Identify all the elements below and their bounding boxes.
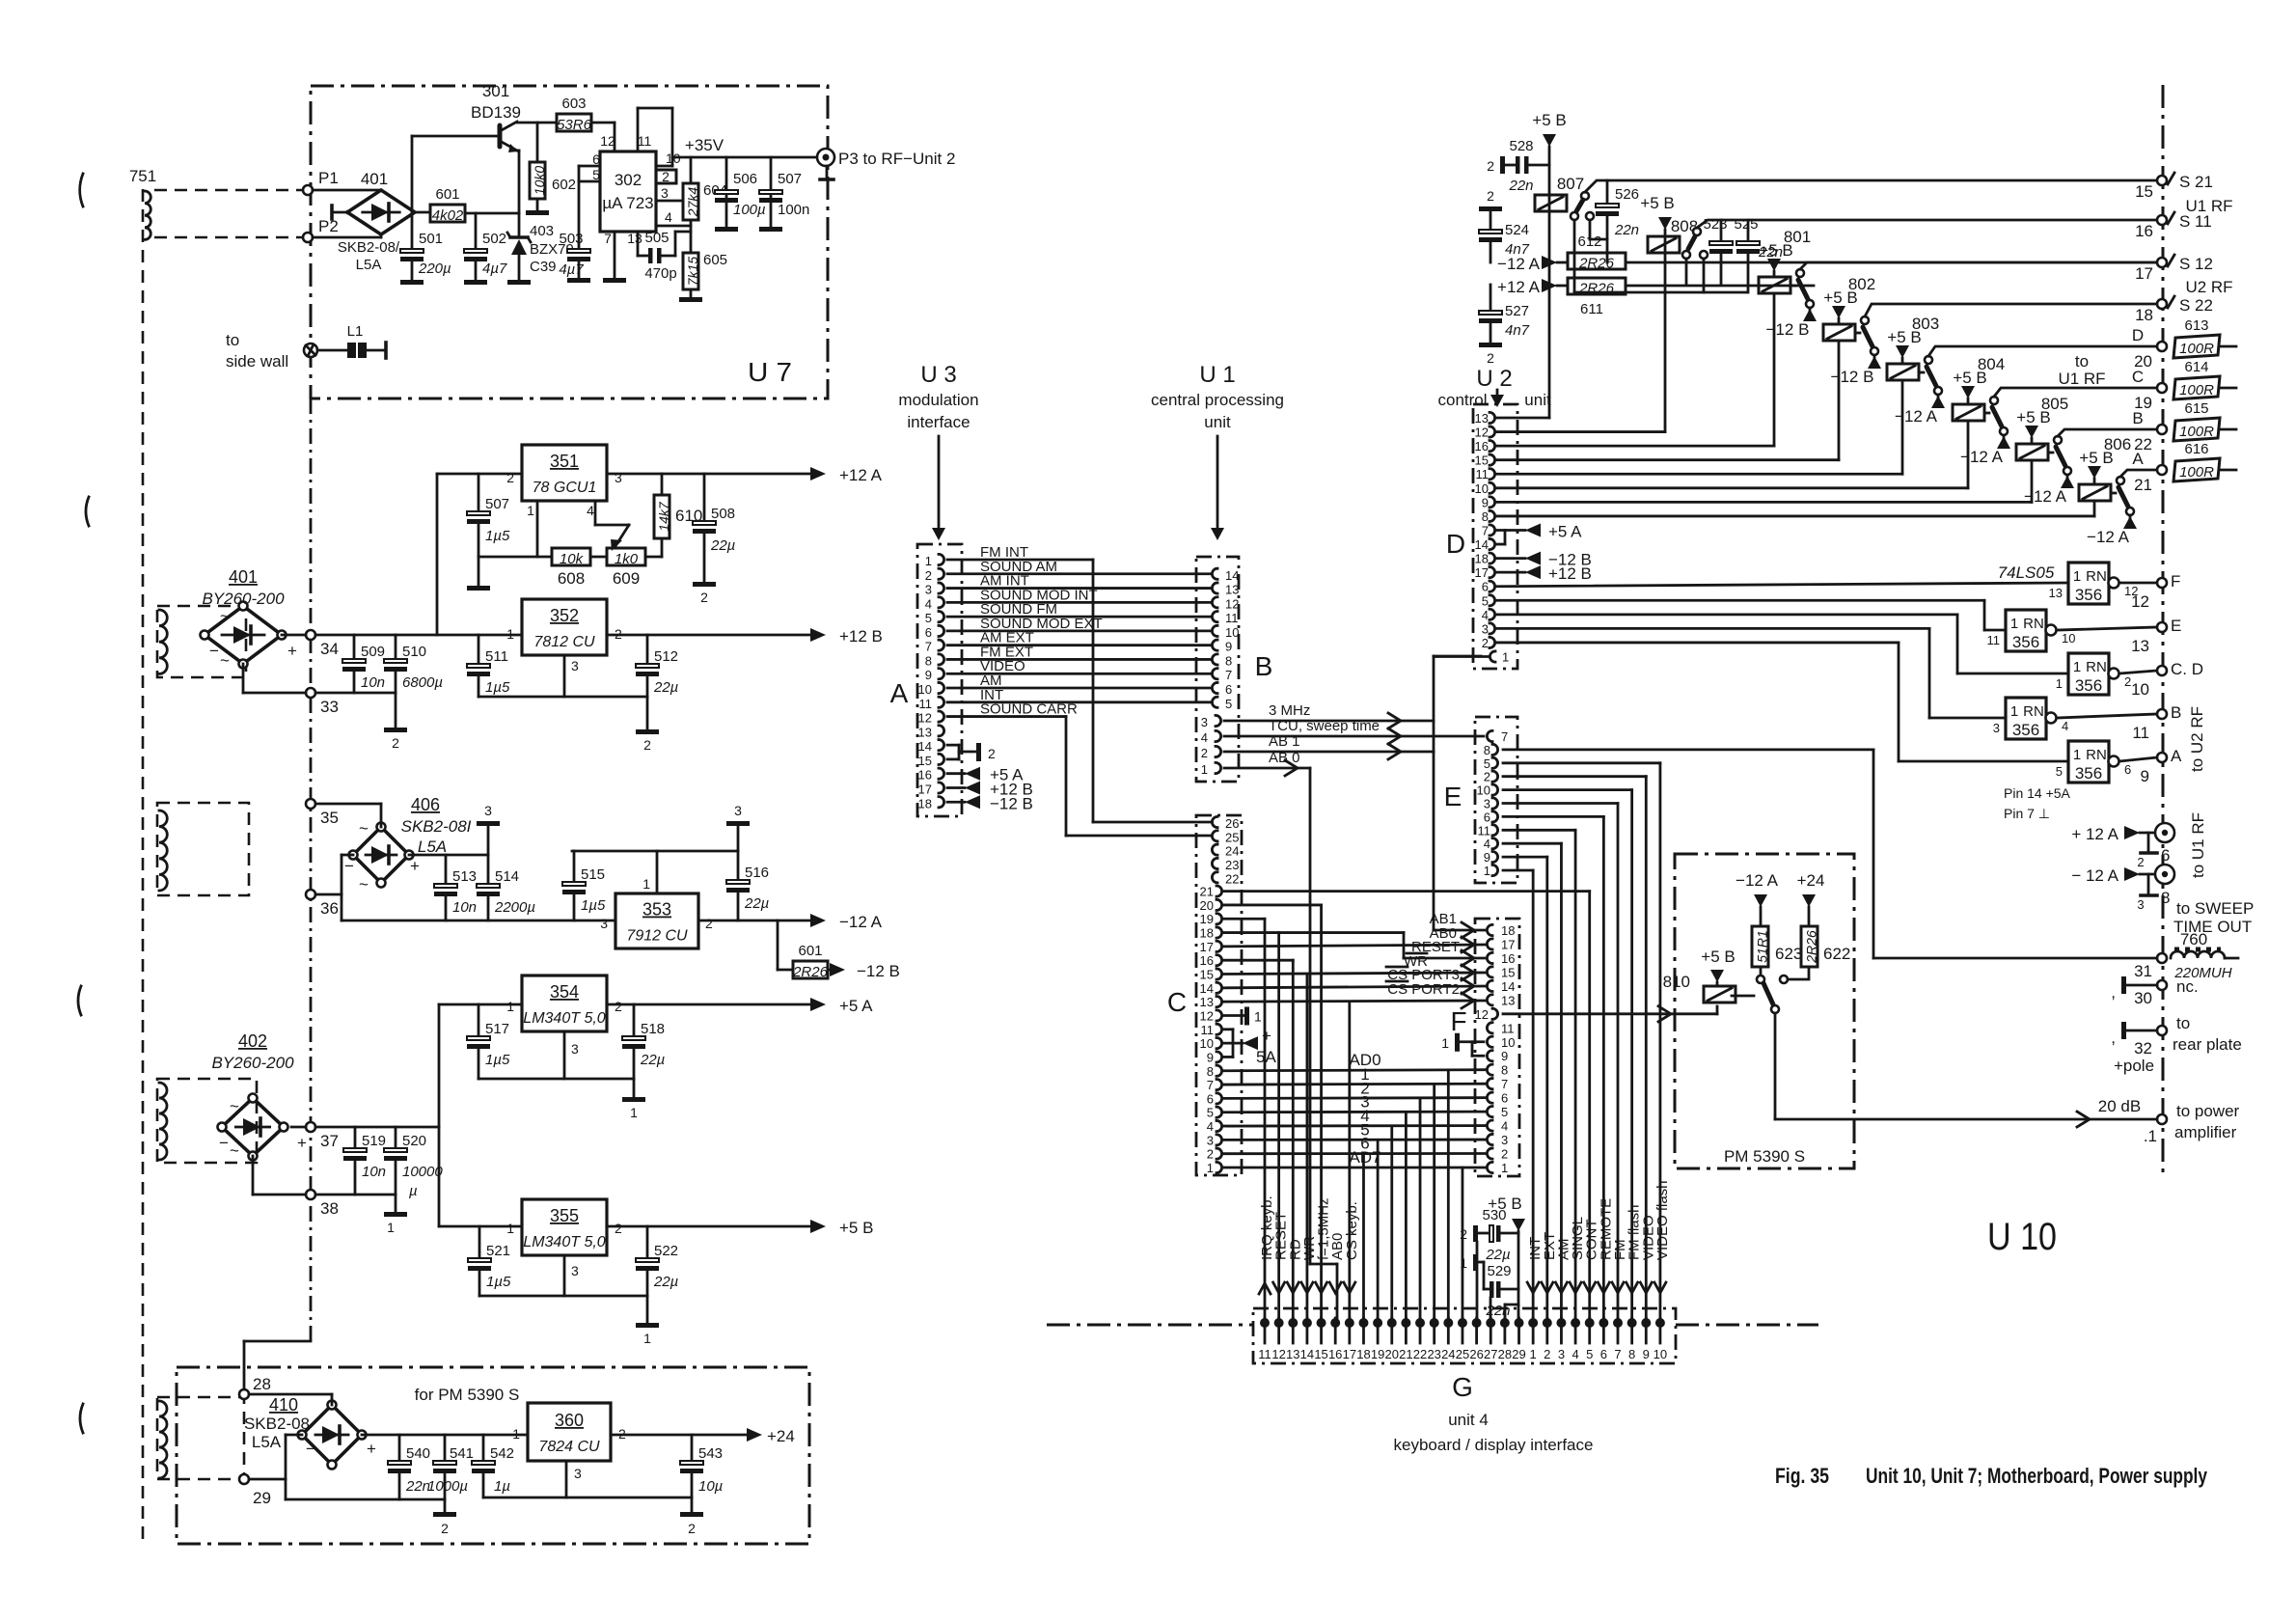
svg-text:100R: 100R (2179, 424, 2214, 440)
svg-text:541: 541 (450, 1445, 474, 1462)
wire 352 pin3 (563, 655, 566, 697)
svg-text:3: 3 (571, 1263, 579, 1278)
svg-text:6: 6 (1482, 580, 1489, 594)
arrow +24 in PM box (1797, 871, 1825, 926)
capacitor C506 100µ (715, 171, 766, 218)
wire base riser (412, 136, 500, 213)
wire 808 throw right down (1703, 259, 1706, 292)
capacitor C512 22µ (636, 635, 678, 697)
ground 520 (384, 1212, 407, 1235)
wire D4 to gate3 (1497, 615, 2068, 673)
svg-text:unit 4: unit 4 (1448, 1411, 1489, 1429)
label U1 RF (2185, 197, 2232, 215)
svg-text:807: 807 (1557, 175, 1584, 193)
wire C506 (725, 157, 728, 227)
label 410 (244, 1395, 310, 1451)
label 74LS05 (1998, 563, 2055, 582)
svg-text:1µ5: 1µ5 (485, 679, 510, 696)
svg-text:14: 14 (1475, 537, 1489, 552)
relay 802 (1823, 275, 1875, 341)
svg-text:301: 301 (482, 82, 509, 100)
caption Fig. 35 (1775, 1464, 1829, 1488)
svg-text:2: 2 (615, 999, 622, 1014)
label E (1444, 782, 1462, 811)
resistor R603 53R6 (557, 96, 592, 133)
bridge rectifier 402 BY260-200 (218, 1094, 288, 1161)
svg-text:21: 21 (2134, 476, 2152, 494)
svg-text:Fig. 35: Fig. 35 (1775, 1464, 1829, 1488)
svg-text:+5 B: +5 B (1701, 948, 1735, 966)
svg-text:interface: interface (907, 413, 970, 431)
svg-text:2R26: 2R26 (1804, 930, 1819, 964)
wire junction rail 303 (1574, 291, 1747, 294)
wire collector line to R602 (536, 123, 539, 162)
wire C14 to F14 CS PORT3 (1224, 978, 1485, 994)
svg-text:3: 3 (1482, 621, 1489, 636)
svg-text:15: 15 (1200, 968, 1214, 982)
svg-text:17: 17 (1343, 1347, 1356, 1361)
svg-text:7: 7 (1501, 729, 1508, 744)
svg-text:C. D: C. D (2171, 660, 2203, 678)
svg-text:19: 19 (1200, 912, 1214, 926)
svg-text:10µ: 10µ (698, 1478, 723, 1495)
labels 352 pins (506, 626, 622, 673)
svg-text:TCU, sweep time: TCU, sweep time (1269, 718, 1380, 734)
svg-text:+24: +24 (1797, 871, 1825, 890)
power +5B for relay 803 (1887, 328, 1921, 364)
label pin 6 (592, 151, 600, 167)
resistor R615 100R (2173, 400, 2236, 441)
wire node to cap 501 (411, 212, 414, 249)
label 406 (401, 795, 472, 856)
capacitor C521 1µ5 (468, 1226, 511, 1296)
svg-text:26: 26 (1469, 1347, 1483, 1361)
svg-text:nc.: nc. (2176, 977, 2199, 996)
svg-text:−: − (219, 1134, 229, 1152)
svg-text:µ: µ (409, 1183, 418, 1199)
svg-text:1: 1 (2010, 703, 2018, 720)
svg-text:20 dB: 20 dB (2098, 1097, 2141, 1115)
connector A boundary (dash-dot) (917, 544, 962, 816)
capacitor C515 1µ5 (562, 851, 606, 920)
wire +24 rail (362, 1434, 751, 1437)
svg-text:17: 17 (1501, 937, 1515, 951)
svg-text:−: − (306, 1440, 315, 1458)
svg-text:−12 B: −12 B (857, 962, 900, 980)
node pin 13 line E (2131, 617, 2181, 655)
coax jack to U1 RF (-12A) pin 8 (2137, 865, 2174, 912)
label FM (rotated) with arrow (1612, 1239, 1628, 1293)
label 3MHz (1269, 702, 1310, 719)
svg-text:352: 352 (550, 606, 579, 625)
svg-text:2: 2 (615, 1221, 622, 1236)
svg-text:E: E (2171, 617, 2181, 635)
svg-text:14: 14 (1225, 568, 1239, 583)
wire A2 to B14 (947, 572, 1212, 575)
svg-text:601: 601 (435, 186, 459, 203)
label unit 4 (1448, 1411, 1489, 1429)
svg-text:602: 602 (552, 177, 576, 193)
svg-text:7: 7 (1614, 1347, 1621, 1361)
capacitor C502 (464, 231, 507, 277)
svg-text:13: 13 (1286, 1347, 1299, 1361)
label signal INT (980, 687, 1003, 703)
svg-text:amplifier: amplifier (2174, 1123, 2237, 1141)
capacitor C511 1µ5 (467, 635, 510, 697)
wire C520 ground (395, 1195, 397, 1212)
wire +5B vertical to D13 (1497, 147, 1549, 418)
coax jack to U1 RF (+12A) pin 6 (2137, 823, 2174, 869)
svg-text:10n: 10n (452, 899, 477, 916)
svg-text:16: 16 (1475, 439, 1489, 453)
wire 353 pin1 (656, 851, 659, 893)
svg-text:C: C (1167, 987, 1187, 1017)
bridge 401 marks (209, 607, 297, 670)
svg-text:unit: unit (1204, 413, 1231, 431)
wire to 355 (439, 1225, 522, 1228)
svg-text:15: 15 (1314, 1347, 1327, 1361)
svg-text:17: 17 (2135, 264, 2153, 283)
label SKB2-08/ L5A (338, 239, 400, 273)
wire C3 to F3 (5) (1224, 1140, 1485, 1318)
svg-text:VIDEO flash: VIDEO flash (1654, 1180, 1671, 1260)
svg-text:AB 0: AB 0 (1269, 750, 1300, 766)
ground 507 (759, 227, 782, 232)
svg-text:403: 403 (530, 223, 554, 239)
svg-text:E: E (1444, 782, 1462, 811)
wire +5B to G28 G29 (1505, 1305, 1518, 1318)
wire 36 to bridge left (315, 855, 353, 894)
svg-text:36: 36 (320, 899, 339, 918)
svg-text:B: B (1255, 651, 1273, 681)
svg-text:5: 5 (1484, 756, 1490, 771)
paper mark 4 (80, 1404, 83, 1433)
svg-text:2: 2 (615, 626, 622, 642)
svg-text:1: 1 (1254, 1008, 1262, 1024)
svg-text:+5 A: +5 A (839, 997, 873, 1015)
paper mark 2 (86, 497, 89, 526)
svg-text:20: 20 (1385, 1347, 1399, 1361)
svg-text:2: 2 (643, 737, 651, 753)
wire collector to R603 (517, 122, 557, 124)
svg-text:5: 5 (925, 611, 932, 625)
svg-text:401: 401 (229, 567, 258, 587)
capacitor C528 22n (1505, 138, 1549, 194)
capacitor C530 22µ (1460, 1207, 1518, 1263)
node pin 1 to power amplifier (2098, 1097, 2240, 1145)
node pin 32 to rear plate (2111, 1014, 2242, 1075)
ground 543 (680, 1497, 703, 1536)
svg-text:8: 8 (1225, 653, 1232, 668)
svg-text:33: 33 (320, 698, 339, 716)
label CS PORT2 (1386, 981, 1460, 998)
power +5B for relay 801 (1759, 241, 1792, 277)
svg-text:4: 4 (1572, 1347, 1578, 1361)
svg-text:10: 10 (1200, 1036, 1214, 1051)
svg-text:3: 3 (571, 658, 579, 673)
arrow +5A (810, 997, 873, 1015)
wire E4 down to G (1503, 843, 1561, 1318)
svg-text:22µ: 22µ (653, 1274, 678, 1290)
svg-text:17: 17 (918, 782, 932, 796)
capacitor C525 22n (1734, 216, 1783, 292)
svg-text:D: D (1446, 529, 1465, 559)
svg-text:1: 1 (925, 554, 932, 568)
svg-text:507: 507 (778, 171, 802, 187)
power +5B for relay 810 (1701, 948, 1735, 986)
svg-text:53R6: 53R6 (557, 117, 592, 133)
svg-text:7: 7 (1501, 1077, 1508, 1091)
svg-text:4µ7: 4µ7 (482, 261, 507, 277)
svg-text:32: 32 (2134, 1039, 2152, 1058)
arrow -12B (828, 962, 900, 980)
label RD (rotated) with arrow (1287, 1239, 1303, 1293)
screw terminal (304, 343, 317, 357)
svg-text:4k02: 4k02 (432, 207, 464, 224)
gate U356c (2056, 653, 2131, 695)
svg-text:16: 16 (1501, 951, 1515, 966)
node 29 (239, 1474, 271, 1507)
svg-text:20: 20 (1200, 898, 1214, 913)
node 38 (306, 1190, 339, 1218)
wire to L1 (317, 349, 347, 352)
ground 503 (567, 278, 590, 283)
wire 3MHz (1224, 713, 1434, 728)
svg-text:1: 1 (1460, 1255, 1467, 1271)
ground 510 (384, 728, 407, 751)
svg-text:3: 3 (615, 470, 622, 485)
wire bridge406 out (409, 854, 488, 857)
svg-text:1000µ: 1000µ (427, 1478, 468, 1495)
svg-text:8: 8 (1482, 509, 1489, 524)
svg-text:18: 18 (918, 796, 932, 810)
ground 522 (636, 1323, 659, 1346)
svg-text:1µ5: 1µ5 (485, 1052, 510, 1068)
svg-text:,: , (2111, 983, 2116, 1002)
svg-text:9: 9 (1501, 1049, 1508, 1063)
wire bridge402 to node37 (291, 1126, 306, 1129)
svg-text:1: 1 (1502, 650, 1509, 665)
wire top rail 353 (572, 850, 738, 853)
label CS keyb. (rotated) with arrow (1344, 1201, 1360, 1293)
label pin 10 (666, 151, 681, 166)
svg-text:2: 2 (1207, 1147, 1214, 1162)
svg-text:353: 353 (642, 900, 671, 920)
label IRQ keyb. (rotated) with arrow (1259, 1195, 1275, 1294)
svg-text:2: 2 (700, 590, 708, 605)
arrow +5B (810, 1219, 873, 1237)
svg-text:7k15: 7k15 (685, 257, 700, 287)
PM 5390 S boundary (dash-dot box) (1675, 854, 1854, 1168)
wire A6 to B10 (947, 630, 1212, 633)
svg-text:7824 CU: 7824 CU (538, 1439, 600, 1455)
capacitor C505 470p (644, 230, 676, 282)
svg-text:2: 2 (1544, 1347, 1550, 1361)
arrow -12B at D18 (1497, 551, 1592, 569)
svg-text:5: 5 (2056, 764, 2063, 779)
svg-text:10: 10 (1654, 1347, 1667, 1361)
ground ref 2 at C528 (1487, 156, 1505, 174)
ground 3 above C516 (726, 803, 750, 851)
svg-text:524: 524 (1505, 222, 1529, 238)
switch contact of relay 806 (2087, 477, 2137, 546)
svg-text:to: to (2176, 1014, 2190, 1032)
winding coil 406 (159, 810, 167, 891)
capacitor C524 4n7 (1479, 188, 1530, 262)
winding coil 401 (159, 610, 167, 673)
U10 boundary bottom-left (dash-dot) (1047, 1324, 1253, 1327)
svg-text:to: to (226, 331, 239, 349)
wire A9 to B7 (947, 673, 1212, 675)
svg-text:21: 21 (1399, 1347, 1412, 1361)
arrow +24 (747, 1427, 795, 1445)
wire relay 802 contact rail (1865, 304, 2157, 316)
wire R601 to emitter node (465, 212, 519, 215)
regulator 352 7812CU (522, 599, 607, 655)
resistor R608 10k (552, 548, 590, 588)
svg-text:25: 25 (1456, 1347, 1469, 1361)
wire P2 dashed (154, 236, 302, 239)
svg-text:−12 B: −12 B (1831, 368, 1874, 386)
svg-text:7: 7 (1225, 668, 1232, 682)
switch contact of relay 810 (1732, 975, 1809, 1013)
svg-text:530: 530 (1482, 1207, 1506, 1223)
capacitor C514 2200µ (477, 855, 535, 920)
resistor R610 14k7 (654, 474, 702, 557)
ground ref 2 at A14 (976, 743, 996, 761)
label Pin14 +5A Pin7 gnd (2004, 785, 2071, 821)
svg-text:.1: .1 (2144, 1127, 2157, 1145)
label A (890, 678, 909, 708)
svg-text:to U1 RF: to U1 RF (2189, 812, 2207, 878)
label C (1167, 987, 1187, 1017)
resistor R611 2R26 (1568, 278, 1626, 317)
connector P3 (817, 149, 834, 179)
capacitor C520 10000µ (384, 1127, 443, 1199)
svg-text:6: 6 (2124, 762, 2131, 777)
svg-text:521: 521 (486, 1243, 510, 1259)
svg-text:760: 760 (2180, 930, 2207, 948)
svg-text:15: 15 (918, 754, 932, 768)
capacitor C541 1000µ (427, 1435, 474, 1499)
svg-text:1µ5: 1µ5 (485, 528, 510, 544)
capacitor C508 22µ (693, 474, 735, 582)
label modulation interface (898, 391, 978, 431)
capacitor C542 1µ (472, 1435, 514, 1497)
svg-text:24: 24 (1441, 1347, 1455, 1361)
U10 boundary (dash-dot vertical right) (2162, 85, 2165, 1172)
svg-text:~: ~ (230, 1141, 239, 1160)
diode D403 BZX79C39 (zener) (507, 233, 531, 280)
svg-text:+: + (367, 1440, 376, 1458)
label WR at F (1404, 953, 1428, 970)
wire +12B rail (315, 634, 820, 637)
power +5B for relay 805 (2016, 408, 2050, 444)
label signal SOUND MOD INT (980, 587, 1098, 603)
wire 35 to bridge top (315, 804, 381, 827)
label AB1 (1269, 733, 1300, 750)
svg-text:− 12 A: − 12 A (2071, 866, 2118, 885)
svg-text:L5A: L5A (356, 257, 382, 273)
wire A11 to B5 (947, 701, 1212, 703)
wire 355 pin3 (563, 1255, 566, 1296)
svg-text:CS keyb.: CS keyb. (1344, 1201, 1360, 1260)
node pin 11 line B (2132, 703, 2181, 742)
connector B boundary (dash-dot) (1196, 557, 1239, 782)
svg-text:17: 17 (1475, 565, 1489, 580)
svg-text:10: 10 (918, 682, 932, 697)
svg-text:15: 15 (1501, 965, 1515, 979)
svg-text:4: 4 (1201, 730, 1208, 745)
connector G pins (1258, 1318, 1667, 1361)
svg-text:4: 4 (2062, 719, 2068, 733)
bridge rectifier 401 BY260-200 (201, 602, 287, 669)
svg-text:7: 7 (1207, 1078, 1214, 1092)
wire relay808 rail to S11 (1697, 220, 2157, 228)
label signal SOUND CARR (980, 701, 1078, 718)
svg-text:13: 13 (2131, 637, 2149, 655)
arrow -12A to coax (2071, 866, 2153, 885)
wire bridge401 to R601 (415, 211, 430, 214)
svg-text:U 3: U 3 (920, 362, 956, 388)
wire bridge bottom to node33 (243, 664, 306, 693)
connector F pin 12 (1475, 1007, 1498, 1022)
svg-text:15: 15 (2135, 182, 2153, 201)
svg-text:22n: 22n (1508, 178, 1533, 194)
svg-text:16: 16 (1328, 1347, 1342, 1361)
wire minus to ground rail (286, 1479, 445, 1499)
svg-text:Pin 14 +5A: Pin 14 +5A (2004, 785, 2071, 801)
svg-text:10n: 10n (361, 674, 385, 691)
resistor R623 51R1 (1752, 926, 1802, 975)
svg-text:505: 505 (644, 230, 669, 246)
svg-text:3: 3 (574, 1466, 582, 1481)
wire D1 out (1434, 655, 1488, 658)
wire pin 5 (579, 180, 600, 183)
svg-text:612: 612 (1577, 234, 1601, 250)
svg-text:503: 503 (559, 231, 583, 247)
svg-text:4: 4 (925, 596, 932, 611)
svg-text:6: 6 (1484, 810, 1490, 824)
svg-text:1: 1 (2073, 747, 2081, 763)
motherboard boundary (dash-dot vertical) (310, 398, 313, 1341)
svg-text:29: 29 (253, 1489, 271, 1507)
power +5B for relay 808 (1640, 194, 1674, 230)
svg-text:10: 10 (1501, 1035, 1515, 1050)
svg-text:~: ~ (359, 875, 369, 893)
connector D pins (1475, 411, 1510, 665)
svg-text:613: 613 (2184, 317, 2208, 334)
resistor R604 27k4 (683, 182, 727, 220)
capacitor C540 22n (388, 1435, 430, 1499)
svg-text:508: 508 (711, 506, 735, 522)
svg-text:603: 603 (561, 96, 586, 112)
wire relay 803 coil to D11 (1497, 381, 1902, 474)
svg-text:22µ: 22µ (744, 895, 769, 912)
svg-text:31: 31 (2134, 962, 2152, 980)
wire main +5 riser (438, 1004, 441, 1226)
power +5B for relay 804 (1953, 369, 1986, 404)
wire AB1 from B2 (1224, 744, 1434, 759)
svg-text:U 7: U 7 (748, 357, 792, 387)
node pin 18 S 22 (2135, 296, 2213, 324)
wire rail to 351 (437, 474, 522, 635)
winding for 406 (dashed box) (157, 803, 249, 895)
wire AB1 to F18 (1434, 752, 1485, 938)
wire C518 ground (633, 1079, 636, 1097)
resistor R602 10k0 (530, 162, 576, 199)
svg-text:+: + (287, 642, 297, 660)
